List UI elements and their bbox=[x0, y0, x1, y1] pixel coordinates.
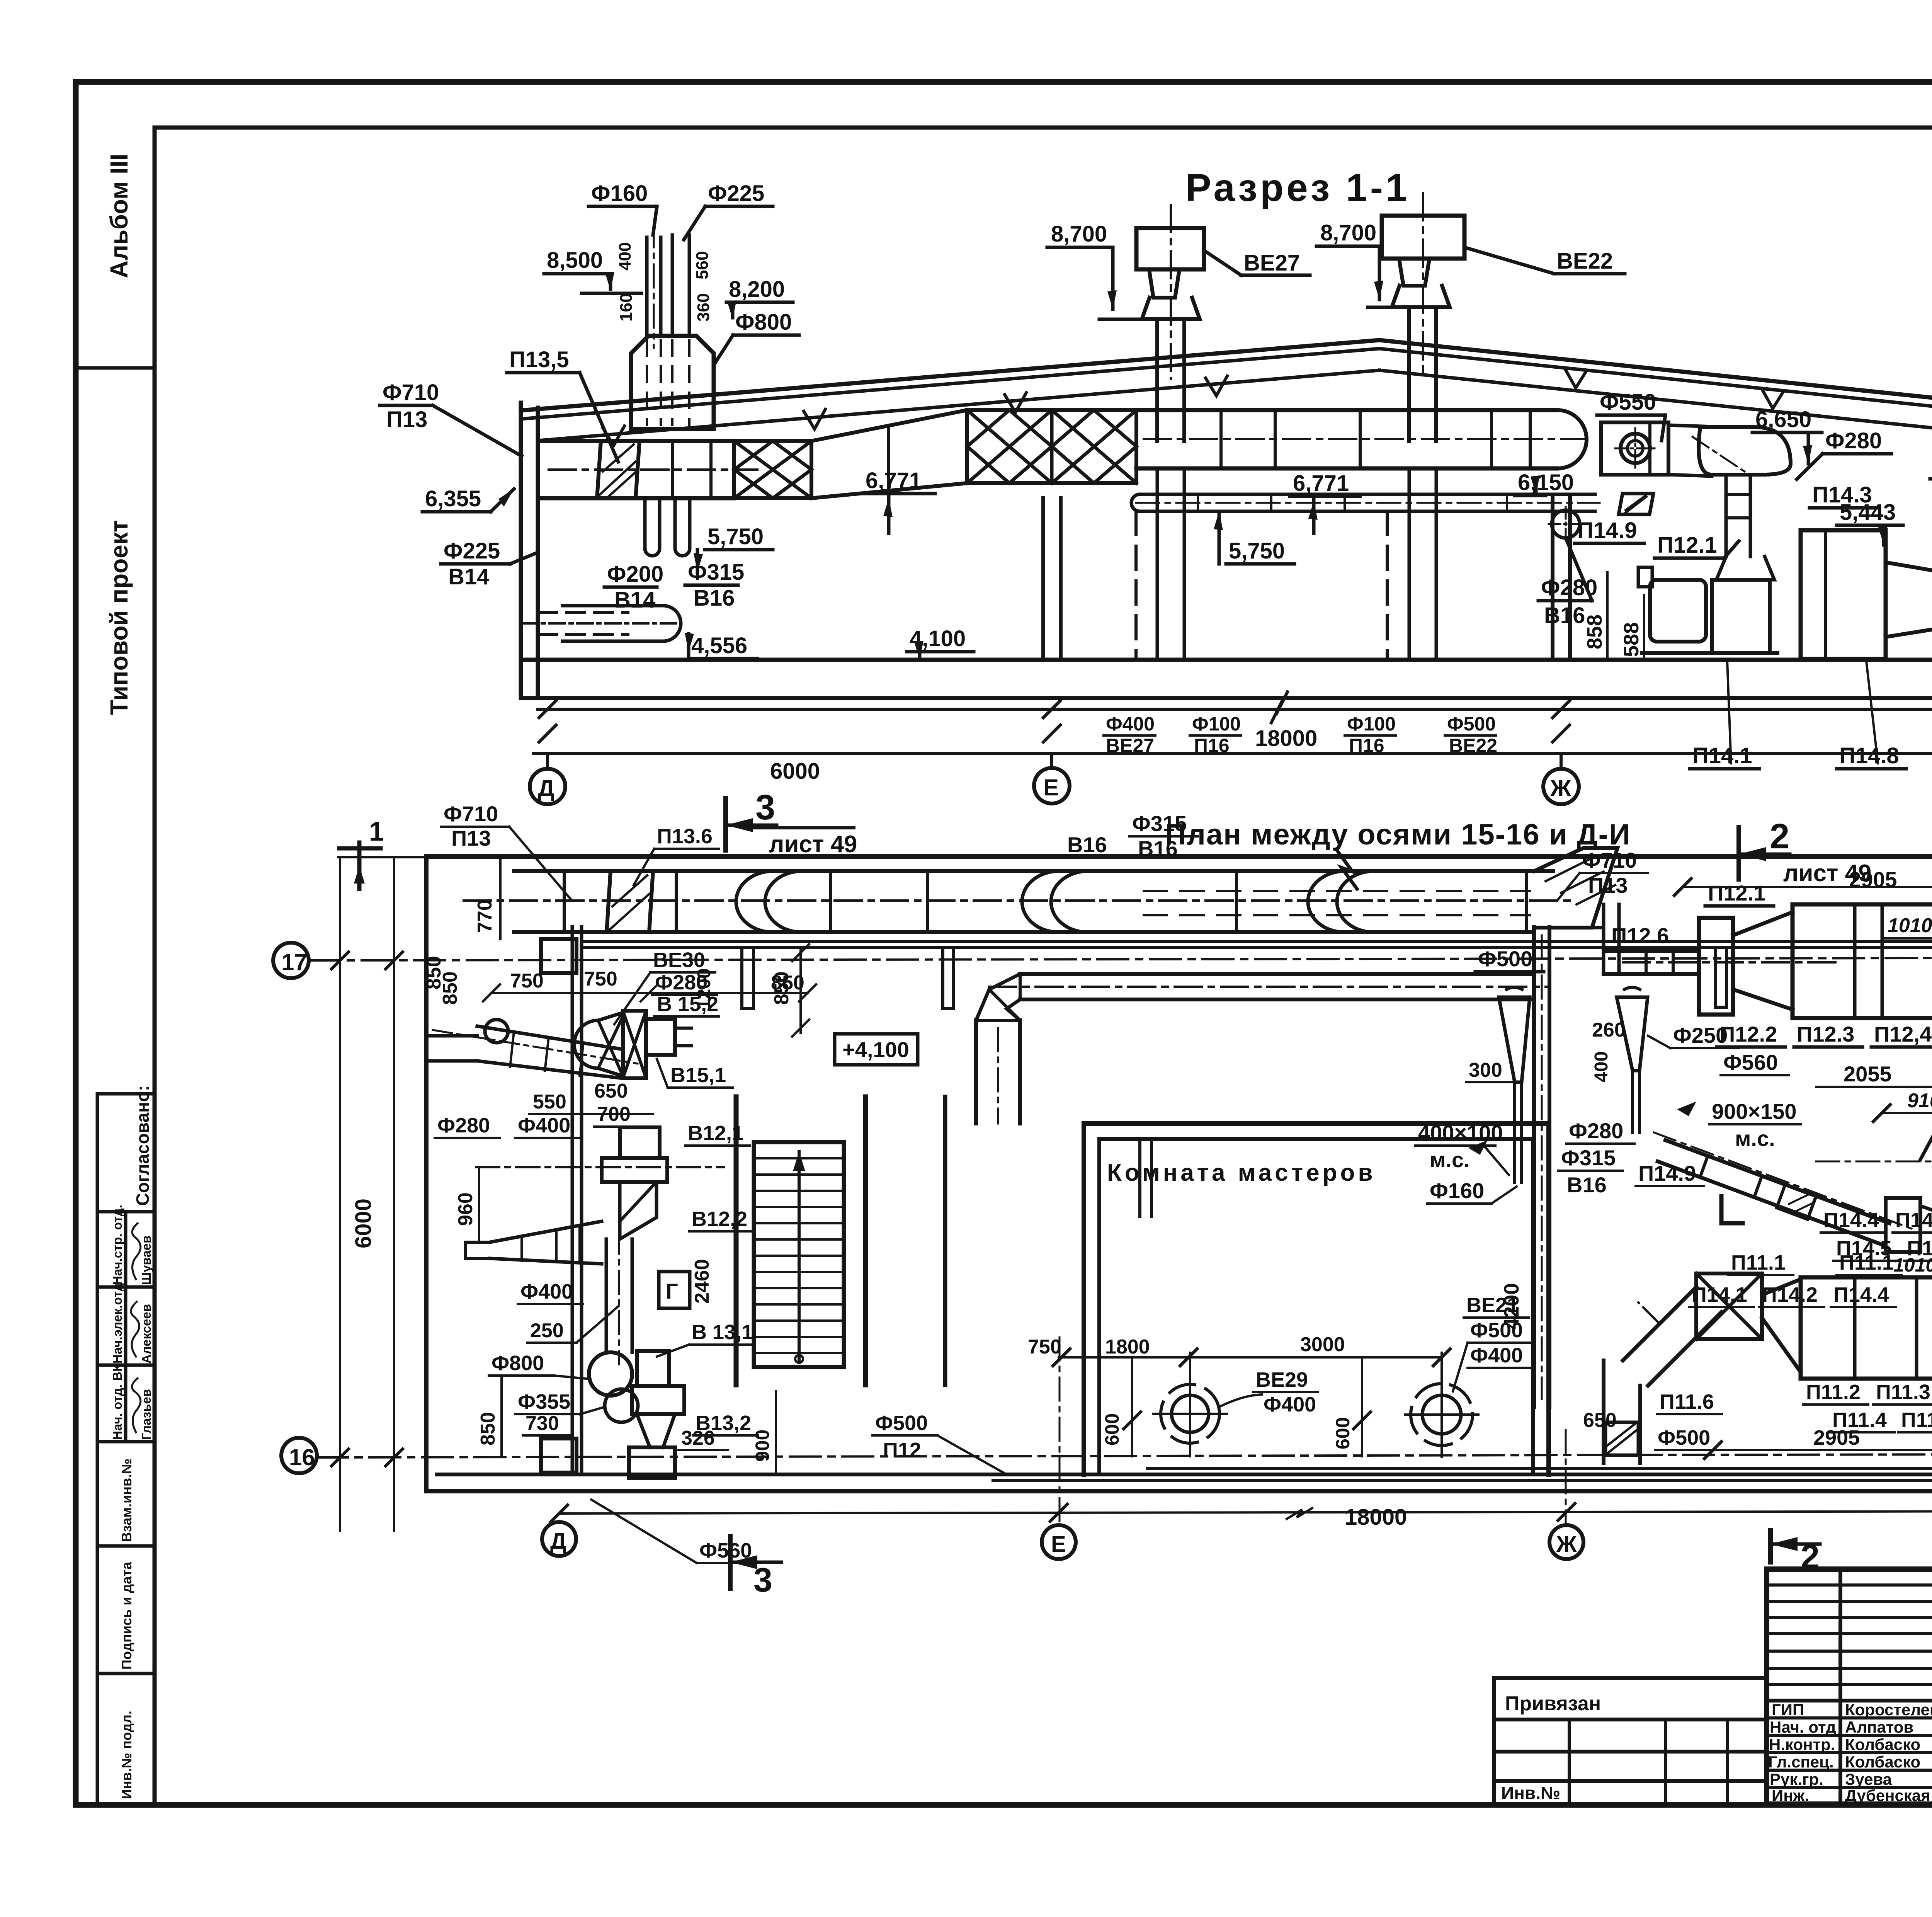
svg-text:900×150: 900×150 bbox=[1712, 1099, 1797, 1124]
svg-text:лист 49: лист 49 bbox=[769, 831, 857, 858]
svg-text:770: 770 bbox=[474, 899, 496, 933]
breather pipe lower left bbox=[539, 613, 628, 634]
lower duct 5,750 bbox=[1140, 493, 1595, 496]
svg-text:326: 326 bbox=[681, 1427, 715, 1449]
svg-text:м.с.: м.с. bbox=[1735, 1126, 1775, 1151]
svg-text:ВЕ27: ВЕ27 bbox=[1244, 250, 1300, 276]
svg-text:Ф250: Ф250 bbox=[1673, 1023, 1728, 1047]
svg-text:В14: В14 bbox=[614, 587, 655, 613]
svg-text:Ф280: Ф280 bbox=[437, 1114, 490, 1137]
break mark bbox=[1271, 692, 1287, 723]
svg-text:Ф400: Ф400 bbox=[1264, 1393, 1316, 1416]
second duct to room bbox=[1020, 972, 1534, 976]
svg-text:Ф225: Ф225 bbox=[444, 538, 500, 564]
svg-text:П14.6: П14.6 bbox=[1895, 1209, 1932, 1232]
roof left slope lines bbox=[521, 340, 1379, 410]
svg-text:1: 1 bbox=[369, 816, 384, 846]
svg-text:550: 550 bbox=[533, 1091, 566, 1113]
svg-text:П12.3: П12.3 bbox=[1797, 1022, 1854, 1046]
svg-text:П11.7: П11.7 bbox=[1901, 1408, 1932, 1432]
svg-text:Ф500: Ф500 bbox=[1658, 1426, 1710, 1449]
svg-text:850: 850 bbox=[477, 1412, 499, 1445]
svg-text:260: 260 bbox=[1592, 1019, 1626, 1041]
ventilator BE22 bbox=[1422, 193, 1424, 375]
svg-text:Алексеев: Алексеев bbox=[139, 1304, 153, 1364]
equipment: motor + fan + plenum + cone bbox=[1725, 475, 1728, 557]
svg-text:4,556: 4,556 bbox=[691, 633, 747, 658]
svg-text:Ф500: Ф500 bbox=[1447, 713, 1496, 735]
svg-text:Ф280: Ф280 bbox=[1825, 428, 1882, 453]
interior partitions bbox=[734, 1097, 739, 1385]
svg-text:900: 900 bbox=[752, 1430, 773, 1462]
T1 mark left top bbox=[357, 843, 362, 889]
svg-text:м.с.: м.с. bbox=[1430, 1147, 1470, 1172]
svg-text:ВЕ29: ВЕ29 bbox=[1256, 1368, 1308, 1391]
inner left border bbox=[153, 128, 157, 1805]
svg-text:1800: 1800 bbox=[1105, 1336, 1150, 1358]
svg-text:Шуваев: Шуваев bbox=[139, 1236, 153, 1285]
svg-text:3: 3 bbox=[753, 1561, 772, 1599]
svg-text:8,700: 8,700 bbox=[1051, 221, 1107, 247]
bottom middle drains bbox=[1059, 1356, 1442, 1359]
svg-text:Нач.стр. отд.: Нач.стр. отд. bbox=[110, 1205, 124, 1285]
svg-text:Гл.спец.: Гл.спец. bbox=[1768, 1753, 1834, 1771]
svg-text:5,750: 5,750 bbox=[707, 524, 764, 549]
P11 cluster bbox=[1623, 1287, 1721, 1386]
svg-text:В12,2: В12,2 bbox=[692, 1207, 747, 1231]
svg-text:Ф800: Ф800 bbox=[735, 310, 792, 335]
svg-text:В 13,1: В 13,1 bbox=[692, 1321, 753, 1344]
svg-text:850: 850 bbox=[770, 971, 793, 1005]
rising segment bbox=[811, 410, 967, 441]
svg-text:Инж.: Инж. bbox=[1772, 1786, 1809, 1805]
svg-text:6,771: 6,771 bbox=[866, 468, 922, 493]
svg-text:960: 960 bbox=[454, 1192, 477, 1226]
hatched damper in plan duct bbox=[607, 871, 653, 932]
svg-text:650: 650 bbox=[1583, 1409, 1617, 1432]
svg-text:П14.1: П14.1 bbox=[1692, 743, 1752, 768]
svg-text:П14.9: П14.9 bbox=[1638, 1161, 1696, 1185]
svg-text:П14.9: П14.9 bbox=[1577, 518, 1637, 543]
svg-text:730: 730 bbox=[526, 1412, 559, 1435]
svg-text:Ф500: Ф500 bbox=[1470, 1319, 1523, 1342]
svg-text:Д: Д bbox=[538, 775, 554, 801]
svg-text:1010: 1010 bbox=[1893, 1254, 1932, 1276]
svg-text:П12.1: П12.1 bbox=[1708, 881, 1765, 905]
svg-text:П11.1: П11.1 bbox=[1839, 1251, 1894, 1274]
svg-text:160: 160 bbox=[617, 293, 636, 322]
svg-text:П13: П13 bbox=[451, 826, 491, 850]
svg-text:Инв.№ подл.: Инв.№ подл. bbox=[119, 1711, 134, 1799]
svg-text:В15,1: В15,1 bbox=[670, 1064, 726, 1087]
svg-text:Ф315: Ф315 bbox=[688, 560, 744, 585]
inner top line bbox=[155, 126, 1932, 130]
svg-text:3: 3 bbox=[755, 788, 775, 827]
svg-text:2: 2 bbox=[1770, 817, 1789, 856]
svg-text:П13: П13 bbox=[386, 407, 427, 432]
svg-text:750: 750 bbox=[1028, 1336, 1061, 1358]
boxed labels bbox=[835, 1034, 918, 1065]
svg-text:Привязан: Привязан bbox=[1505, 1692, 1601, 1715]
stairs bbox=[754, 1142, 844, 1367]
svg-text:Нач. отд: Нач. отд bbox=[1770, 1718, 1836, 1736]
svg-text:Ф550: Ф550 bbox=[1600, 390, 1656, 415]
svg-text:650: 650 bbox=[594, 1080, 628, 1102]
svg-text:2055: 2055 bbox=[1844, 1062, 1892, 1086]
bottom dim line bbox=[559, 1511, 1932, 1514]
svg-text:Глазьев: Глазьев bbox=[139, 1389, 153, 1440]
svg-text:ВЕ21: ВЕ21 bbox=[1466, 1294, 1519, 1317]
svg-text:560: 560 bbox=[693, 251, 712, 279]
vertical F500 duct down bbox=[1532, 927, 1536, 1407]
svg-text:400×100: 400×100 bbox=[1418, 1120, 1503, 1145]
svg-text:П16: П16 bbox=[1194, 735, 1230, 756]
columns below band bbox=[1041, 498, 1045, 660]
svg-text:2905: 2905 bbox=[1813, 1426, 1860, 1449]
svg-text:П12.2: П12.2 bbox=[1719, 1022, 1777, 1046]
section mark 3 / лист 49 (top) bbox=[723, 798, 728, 850]
risers to floor bbox=[1156, 468, 1159, 660]
right elbow of top duct bbox=[1534, 848, 1617, 928]
bottom section mark 3 bbox=[728, 1536, 733, 1588]
svg-text:Колбаско: Колбаско bbox=[1845, 1735, 1920, 1754]
left wall bbox=[519, 403, 523, 698]
svg-text:5,750: 5,750 bbox=[1229, 538, 1285, 564]
axis verticals to circles bbox=[1059, 1337, 1061, 1525]
svg-text:Дубенская: Дубенская bbox=[1845, 1786, 1930, 1805]
svg-text:400: 400 bbox=[1591, 1051, 1612, 1082]
svg-text:ГИП: ГИП bbox=[1772, 1701, 1804, 1719]
svg-text:П14.3: П14.3 bbox=[1812, 482, 1872, 507]
svg-text:Ф400: Ф400 bbox=[518, 1114, 570, 1137]
svg-text:Ф710: Ф710 bbox=[1582, 848, 1637, 872]
svg-text:П13: П13 bbox=[1588, 873, 1628, 897]
diagonal duct P14 bbox=[1658, 1140, 1889, 1245]
nozzle 1 (400x100) bbox=[1499, 997, 1530, 1082]
svg-text:П13,5: П13,5 bbox=[509, 347, 569, 372]
right high segment bbox=[1136, 408, 1557, 412]
svg-text:Ф710: Ф710 bbox=[444, 802, 498, 826]
crossed transition box A bbox=[734, 441, 811, 498]
svg-text:1200: 1200 bbox=[694, 968, 714, 1010]
svg-text:300: 300 bbox=[1469, 1059, 1502, 1081]
svg-text:750: 750 bbox=[584, 968, 617, 990]
ventilator BE27 bbox=[1170, 205, 1172, 379]
svg-text:Ф100: Ф100 bbox=[1347, 713, 1396, 735]
svg-text:Ф800: Ф800 bbox=[492, 1352, 544, 1375]
svg-text:Взам.инв.№: Взам.инв.№ bbox=[119, 1459, 134, 1542]
svg-text:П11.6: П11.6 bbox=[1660, 1390, 1714, 1413]
svg-text:Типовой проект: Типовой проект bbox=[105, 520, 133, 715]
svg-text:Зуева: Зуева bbox=[1845, 1770, 1892, 1788]
bell joints (arcs) bbox=[736, 871, 1374, 932]
chimney pipes and filter box P13.5 bbox=[645, 237, 649, 336]
hatched damper bbox=[597, 441, 639, 498]
svg-text:Рук.гр.: Рук.гр. bbox=[1770, 1770, 1823, 1788]
svg-text:6000: 6000 bbox=[351, 1199, 376, 1248]
svg-text:8,500: 8,500 bbox=[547, 248, 603, 273]
svg-text:250: 250 bbox=[530, 1319, 564, 1342]
svg-text:Комната мастеров: Комната мастеров bbox=[1107, 1159, 1376, 1186]
svg-text:П12.6: П12.6 bbox=[1611, 923, 1669, 948]
svg-text:В16: В16 bbox=[1138, 836, 1178, 861]
svg-text:П11.3: П11.3 bbox=[1876, 1381, 1930, 1404]
bottom section mark 2 bbox=[1768, 1531, 1773, 1562]
svg-text:П14.8: П14.8 bbox=[1839, 743, 1899, 768]
svg-text:+4,100: +4,100 bbox=[842, 1037, 909, 1062]
top duct run bbox=[514, 869, 1553, 873]
svg-text:8,700: 8,700 bbox=[1320, 220, 1376, 245]
duct support beam bbox=[582, 940, 1932, 943]
svg-text:588: 588 bbox=[1620, 622, 1643, 657]
svg-text:Ф500: Ф500 bbox=[1478, 947, 1532, 971]
svg-text:Ф160: Ф160 bbox=[1430, 1178, 1484, 1203]
B12/B13 vertical assembly bbox=[571, 927, 574, 1474]
svg-text:Н.контр.: Н.контр. bbox=[1769, 1735, 1835, 1754]
left B15 assembly bbox=[428, 1036, 477, 1061]
svg-text:В16: В16 bbox=[1544, 603, 1585, 628]
svg-text:Разрез 1-1: Разрез 1-1 bbox=[1185, 166, 1410, 209]
svg-text:П12.1: П12.1 bbox=[1657, 533, 1717, 558]
room KM walls bbox=[1082, 1124, 1086, 1474]
svg-text:Ф280: Ф280 bbox=[1569, 1119, 1623, 1143]
svg-text:Ж: Ж bbox=[1550, 775, 1571, 801]
fan box with circle F550 bbox=[1601, 422, 1668, 475]
svg-text:Ф400: Ф400 bbox=[1106, 713, 1155, 735]
svg-text:П14.4: П14.4 bbox=[1823, 1209, 1879, 1232]
truss V marks bbox=[603, 376, 1227, 446]
svg-text:Нач.элек.отд: Нач.элек.отд bbox=[110, 1283, 124, 1364]
svg-text:Ф400: Ф400 bbox=[1470, 1344, 1523, 1367]
svg-text:Подпись и дата: Подпись и дата bbox=[119, 1561, 134, 1670]
svg-text:16: 16 bbox=[289, 1444, 315, 1470]
hanging pipes with U caps bbox=[645, 498, 660, 556]
svg-text:Алпатов: Алпатов bbox=[1845, 1718, 1913, 1736]
svg-text:Ф500: Ф500 bbox=[875, 1411, 928, 1435]
svg-text:П11.2: П11.2 bbox=[1806, 1381, 1861, 1404]
svg-text:П16: П16 bbox=[1349, 735, 1384, 756]
svg-text:Ф315: Ф315 bbox=[1132, 811, 1187, 836]
wall stubs top bbox=[742, 948, 753, 1009]
svg-text:6,650: 6,650 bbox=[1755, 407, 1811, 432]
crossed transition cluster B bbox=[967, 410, 1136, 483]
left dim verticals bbox=[339, 857, 341, 1531]
svg-text:План между осями 15-16 и Д-И: План между осями 15-16 и Д-И bbox=[1165, 818, 1631, 851]
svg-text:6,355: 6,355 bbox=[425, 486, 481, 511]
svg-text:6000: 6000 bbox=[770, 759, 820, 784]
svg-text:6,771: 6,771 bbox=[1293, 471, 1349, 496]
svg-text:ВЕ30: ВЕ30 bbox=[653, 948, 705, 972]
svg-text:8,200: 8,200 bbox=[729, 277, 785, 302]
roof right slope lines bbox=[1379, 340, 1932, 412]
svg-text:ВЕ22: ВЕ22 bbox=[1449, 735, 1497, 756]
svg-text:Ф355: Ф355 bbox=[518, 1390, 570, 1413]
svg-text:Ж: Ж bbox=[1556, 1532, 1577, 1557]
svg-text:Ф560: Ф560 bbox=[1723, 1050, 1778, 1074]
svg-text:Ф710: Ф710 bbox=[383, 380, 439, 405]
svg-text:700: 700 bbox=[597, 1103, 631, 1125]
svg-text:П14.2: П14.2 bbox=[1762, 1283, 1818, 1306]
svg-text:3000: 3000 bbox=[1300, 1333, 1345, 1356]
hidden dashes in duct bbox=[1144, 890, 1530, 892]
svg-text:В14: В14 bbox=[448, 564, 489, 589]
axis lines bbox=[309, 958, 1932, 960]
svg-text:600: 600 bbox=[1101, 1413, 1123, 1445]
left small grid rows bbox=[1767, 1583, 1932, 1587]
svg-text:17: 17 bbox=[281, 949, 307, 975]
svg-text:В16: В16 bbox=[694, 586, 735, 611]
second duct to P12 bbox=[1580, 926, 1604, 930]
nozzle 2 (F250) bbox=[1617, 997, 1648, 1071]
F500/P12 duct along bottom bbox=[1148, 1467, 1932, 1470]
axis circles bbox=[530, 769, 565, 804]
svg-text:Ф160: Ф160 bbox=[591, 181, 648, 206]
svg-text:Альбом III: Альбом III bbox=[105, 154, 133, 278]
svg-text:П12,4: П12,4 bbox=[1874, 1022, 1932, 1046]
svg-text:Ф100: Ф100 bbox=[1192, 713, 1241, 735]
svg-text:910: 910 bbox=[1907, 1090, 1932, 1112]
svg-text:Ф315: Ф315 bbox=[1561, 1146, 1616, 1170]
horizontal cone bbox=[1920, 1109, 1932, 1216]
svg-text:Согласовано:: Согласовано: bbox=[133, 1085, 153, 1206]
svg-text:Инв.№: Инв.№ bbox=[1501, 1783, 1560, 1803]
svg-text:1010: 1010 bbox=[1888, 914, 1932, 937]
svg-text:850: 850 bbox=[423, 956, 445, 989]
svg-text:В12,1: В12,1 bbox=[688, 1122, 743, 1145]
svg-text:18000: 18000 bbox=[1255, 726, 1317, 751]
P12.1 box, cone, chamber bbox=[1699, 918, 1733, 1015]
svg-text:Колбаско: Колбаско bbox=[1845, 1753, 1920, 1771]
svg-text:П12: П12 bbox=[883, 1439, 921, 1462]
svg-text:ВЕ22: ВЕ22 bbox=[1557, 249, 1613, 274]
svg-text:Ф225: Ф225 bbox=[708, 181, 764, 206]
svg-text:858: 858 bbox=[1583, 615, 1606, 649]
svg-text:2460: 2460 bbox=[691, 1259, 713, 1304]
svg-text:6,150: 6,150 bbox=[1518, 470, 1574, 495]
svg-text:Е: Е bbox=[1051, 1532, 1066, 1557]
svg-text:Ф200: Ф200 bbox=[607, 562, 663, 587]
svg-text:750: 750 bbox=[510, 970, 544, 992]
svg-text:Ф400: Ф400 bbox=[520, 1280, 573, 1303]
section mark 2 / лист 49 (right) bbox=[1736, 827, 1741, 879]
svg-text:Е: Е bbox=[1043, 775, 1059, 800]
bottom axis circles bbox=[542, 1522, 576, 1556]
dim lines bbox=[538, 708, 1932, 711]
floor slab bbox=[521, 658, 1932, 662]
svg-text:Д: Д bbox=[550, 1529, 566, 1554]
svg-text:600: 600 bbox=[1332, 1417, 1354, 1449]
left margin divider bbox=[76, 366, 155, 370]
svg-text:В16: В16 bbox=[1067, 833, 1107, 857]
building walls bbox=[426, 854, 1932, 859]
svg-text:П11.1: П11.1 bbox=[1731, 1251, 1786, 1274]
svg-text:В16: В16 bbox=[1567, 1173, 1607, 1197]
diagonal duct to bell elbow bbox=[1668, 425, 1725, 476]
svg-text:Коростелев: Коростелев bbox=[1845, 1701, 1932, 1719]
svg-text:П13.6: П13.6 bbox=[657, 825, 713, 848]
svg-text:Нач. отд. ВК: Нач. отд. ВК bbox=[110, 1364, 124, 1440]
svg-text:18000: 18000 bbox=[1345, 1505, 1407, 1530]
main duct band : left low segment bbox=[538, 439, 734, 443]
columns on axes bbox=[541, 939, 577, 973]
svg-text:360: 360 bbox=[694, 293, 713, 322]
svg-text:П14.4: П14.4 bbox=[1833, 1283, 1889, 1306]
svg-text:400: 400 bbox=[616, 242, 634, 271]
svg-text:ВЕ27: ВЕ27 bbox=[1106, 735, 1154, 756]
svg-text:Г: Г bbox=[666, 1279, 678, 1303]
